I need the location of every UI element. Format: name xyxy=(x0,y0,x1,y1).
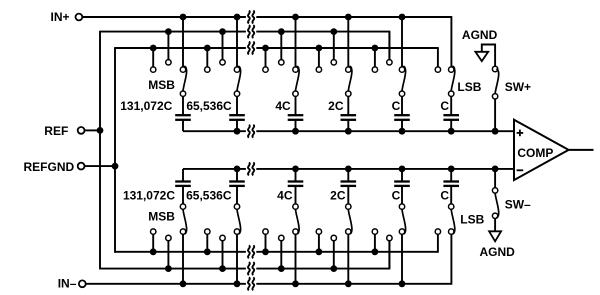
switch LSB IN+ throw (top) xyxy=(449,67,454,72)
node REFGND bottom rail junction MSB xyxy=(150,248,157,255)
switch 4C REF throw (top) xyxy=(279,60,284,65)
wire REF stub to 2C switch (bottom) xyxy=(333,238,335,269)
node REFGND bottom rail junction 4C xyxy=(262,248,269,255)
switch C5 pole (bottom) xyxy=(399,204,404,209)
capacitor C4 2C (bottom) xyxy=(341,182,357,186)
switch LSB pole (top) xyxy=(449,91,454,96)
switch 2C REFGND throw (bottom) xyxy=(316,229,321,234)
node REFGND rail junction 4C xyxy=(262,45,269,52)
node + bus junction cap 2 xyxy=(234,128,241,135)
wire REFGND stub to 4C switch (bottom) xyxy=(265,232,267,252)
wire cap 6 to switch pole (bottom) xyxy=(450,186,452,207)
switch SW- pole xyxy=(492,188,497,193)
wire switch pole to cap 1 (top) xyxy=(182,96,184,115)
wire SW- contact to AGND xyxy=(494,219,496,232)
svg-text:REFGND: REFGND xyxy=(24,160,75,174)
wire top cap-bus to comparator + xyxy=(183,130,514,132)
wire IN- stub to 4C switch (bottom) xyxy=(295,232,297,284)
capacitor C2 65,536C (top) xyxy=(229,115,245,120)
svg-text:REF: REF xyxy=(44,124,68,138)
node REF bottom rail junction MSB xyxy=(165,265,172,272)
node IN- rail junction 2C xyxy=(345,280,352,287)
node + bus junction cap 5 xyxy=(399,128,406,135)
wire REF stub to 65536C switch (bottom) xyxy=(222,238,224,269)
wire REFGND stub to C5 switch xyxy=(374,48,376,70)
wire REF stub to 4C switch (bottom) xyxy=(280,238,282,269)
switch C5 REF throw (top) xyxy=(387,60,392,65)
terminal IN+ xyxy=(76,14,83,21)
wire REF rail drop to C switch contact xyxy=(388,31,390,63)
node REF bottom rail junction 4C xyxy=(278,265,285,272)
node REF bottom rail junction 65536C xyxy=(219,265,226,272)
wire IN+ stub to 2C switch xyxy=(347,17,349,70)
wire REF stub to 2C switch xyxy=(333,32,335,63)
switch 4C pole (top) xyxy=(293,91,298,96)
node REF rail junction 4C xyxy=(278,28,285,35)
switch 2C IN+ throw (top) xyxy=(346,67,351,72)
node REF rail junction 2C xyxy=(330,28,337,35)
switch 4C REFGND throw (bottom) xyxy=(263,229,268,234)
ground AGND symbol (top) xyxy=(475,52,488,61)
wire switch pole to cap 5 (top) xyxy=(401,96,403,115)
svg-text:65,536C: 65,536C xyxy=(186,188,232,202)
switch 65536C lever (bottom) xyxy=(237,209,241,233)
wire break symbol at y=168.9 xyxy=(246,163,256,176)
wire break symbol at y=283.8 xyxy=(246,277,256,290)
wire REF stub to 65536C switch xyxy=(222,32,224,63)
wire - bus to cap 1 (bottom) xyxy=(182,169,184,182)
switch MSB IN+ throw (top) xyxy=(180,67,185,72)
wire REF stub to C5 switch (bottom) xyxy=(388,238,390,269)
switch 65536C REFGND throw (bottom) xyxy=(205,229,210,234)
node - bus junction cap 3 xyxy=(292,166,299,173)
node - bus junction cap 4 xyxy=(345,166,352,173)
wire - bus to cap 5 (bottom) xyxy=(401,169,403,182)
svg-text:IN–: IN– xyxy=(58,277,77,291)
node + bus junction cap 3 xyxy=(292,128,299,135)
switch 2C REF throw (bottom) xyxy=(331,235,336,240)
wire break symbol at y=268.6 xyxy=(246,262,256,275)
wire REFGND rail (top) xyxy=(115,47,438,49)
switch LSB lever (top) xyxy=(451,67,455,91)
capacitor C6 LSB C (top) xyxy=(443,115,459,120)
svg-text:2C: 2C xyxy=(328,99,344,113)
wire REFGND vertical bus (left) xyxy=(114,47,116,253)
switch C5 IN- throw (bottom) xyxy=(399,229,404,234)
switch 2C REF throw (top) xyxy=(331,60,336,65)
node + bus junction SW+ xyxy=(492,128,499,135)
wire REFGND stub to 2C switch xyxy=(318,48,320,70)
node + bus junction cap 4 xyxy=(345,128,352,135)
switch 4C REF throw (bottom) xyxy=(279,235,284,240)
node REFGND rail junction 65536C xyxy=(204,45,211,52)
switch LSB REFGND throw (top) xyxy=(435,67,440,72)
switch MSB lever (top) xyxy=(183,67,187,91)
svg-text:4C: 4C xyxy=(277,188,293,202)
wire - bus to cap 2 (bottom) xyxy=(236,169,238,182)
switch 2C pole (top) xyxy=(346,91,351,96)
svg-text:COMP: COMP xyxy=(517,146,553,160)
wire REFGND bottom rail rise to LSB contact xyxy=(437,232,439,253)
switch 4C pole (bottom) xyxy=(293,204,298,209)
node IN- rail junction C5 xyxy=(399,280,406,287)
switch 4C REFGND throw (top) xyxy=(263,67,268,72)
switch MSB lever (bottom) xyxy=(183,209,187,233)
wire switch pole to cap 3 (top) xyxy=(295,96,297,115)
switch LSB lever (bottom) xyxy=(451,209,455,233)
wire SW+ contact to AGND xyxy=(482,45,495,70)
wire cap 1 to + bus (top) xyxy=(182,120,184,131)
wire IN- stub to C5 switch (bottom) xyxy=(401,232,403,284)
wire REFGND stub to 4C switch xyxy=(265,48,267,70)
switch C5 lever (top) xyxy=(402,67,406,91)
switch 4C IN+ throw (top) xyxy=(293,67,298,72)
switch MSB REFGND throw (top) xyxy=(151,67,156,72)
switch C5 REFGND throw (top) xyxy=(372,67,377,72)
node REF bottom rail junction 2C xyxy=(330,265,337,272)
switch 2C pole (bottom) xyxy=(346,204,351,209)
node REFGND rail junction C5 xyxy=(372,45,379,52)
wire bottom cap-bus to comparator - xyxy=(183,168,514,170)
node REF rail junction 65536C xyxy=(219,28,226,35)
svg-text:2C: 2C xyxy=(330,188,346,202)
wire IN+ stub to 65536C switch xyxy=(236,17,238,70)
wire IN- rail (bottom) xyxy=(86,283,452,285)
svg-text:C: C xyxy=(392,99,401,113)
wire comparator output xyxy=(569,149,594,151)
wire cap 4 to + bus (top) xyxy=(347,120,349,131)
wire IN+ rail drop to LSB contact xyxy=(450,16,452,70)
wire REF terminal lead xyxy=(84,129,100,131)
wire REFGND stub to MSB switch (bottom) xyxy=(152,232,154,252)
wire IN- rail rise to LSB contact xyxy=(450,232,452,285)
capacitor C3 4C (bottom) xyxy=(288,182,304,186)
svg-text:MSB: MSB xyxy=(148,78,175,92)
switch MSB REF throw (top) xyxy=(166,60,171,65)
switch 65536C lever (top) xyxy=(237,67,241,91)
svg-text:AGND: AGND xyxy=(480,245,516,259)
switch MSB IN- throw (bottom) xyxy=(180,229,185,234)
svg-text:C: C xyxy=(392,188,401,202)
switch MSB pole (bottom) xyxy=(180,204,185,209)
svg-text:SW–: SW– xyxy=(505,198,531,212)
wire REF rail (top) xyxy=(100,31,389,33)
svg-text:65,536C: 65,536C xyxy=(186,99,232,113)
wire REFGND stub to C5 switch (bottom) xyxy=(374,232,376,252)
wire REF stub to MSB switch xyxy=(167,32,169,63)
wire cap 5 to + bus (top) xyxy=(401,120,403,131)
wire break symbol at y=251.8 xyxy=(246,245,256,258)
wire break symbol at y=48 xyxy=(246,42,256,55)
switch C5 pole (top) xyxy=(399,91,404,96)
wire cap 4 to switch pole (bottom) xyxy=(347,186,349,207)
terminal REFGND xyxy=(78,163,85,170)
capacitor C4 2C (top) xyxy=(341,115,357,120)
svg-text:SW+: SW+ xyxy=(505,80,531,94)
node REFGND bottom rail junction 2C xyxy=(316,248,323,255)
wire REF vertical bus (left) xyxy=(99,31,101,270)
svg-text:131,072C: 131,072C xyxy=(120,99,172,113)
capacitor C1 MSB 131,072C (bottom) xyxy=(175,182,191,186)
svg-text:AGND: AGND xyxy=(462,28,498,42)
switch 2C IN- throw (bottom) xyxy=(346,229,351,234)
svg-text:LSB: LSB xyxy=(460,212,484,226)
wire REFGND terminal lead xyxy=(84,165,115,167)
switch SW+ AGND throw xyxy=(492,66,497,71)
wire - bus to cap 4 (bottom) xyxy=(347,169,349,182)
switch LSB IN- throw (bottom) xyxy=(449,229,454,234)
svg-text:IN+: IN+ xyxy=(50,10,69,24)
wire REFGND rail (bottom) xyxy=(115,251,438,253)
node IN+ rail junction 2C xyxy=(345,14,352,21)
node REFGND bottom rail junction C5 xyxy=(372,248,379,255)
wire cap 3 to switch pole (bottom) xyxy=(295,186,297,207)
node + bus junction cap 6 xyxy=(448,128,455,135)
wire switch pole to cap 2 (top) xyxy=(236,96,238,115)
wire cap 3 to + bus (top) xyxy=(295,120,297,131)
wire break symbol at y=17 xyxy=(246,11,256,24)
node IN- rail junction 4C xyxy=(292,280,299,287)
ground AGND symbol (bottom) xyxy=(489,231,501,241)
switch 4C IN- throw (bottom) xyxy=(293,229,298,234)
wire IN- stub to 65536C switch (bottom) xyxy=(236,232,238,284)
node IN- rail junction 65536C xyxy=(234,280,241,287)
wire REF bottom rail rise to C switch contact xyxy=(388,238,390,270)
wire REF stub to MSB switch (bottom) xyxy=(167,238,169,269)
wire REF stub to C5 switch xyxy=(388,32,390,63)
svg-text:C: C xyxy=(440,99,449,113)
capacitor C5 C (bottom) xyxy=(394,182,410,186)
switch 65536C pole (bottom) xyxy=(234,204,239,209)
node - bus junction cap 2 xyxy=(234,166,241,173)
terminal IN- xyxy=(79,280,86,287)
switch 2C lever (bottom) xyxy=(348,209,352,233)
svg-text:4C: 4C xyxy=(275,99,291,113)
wire IN+ stub to C5 switch xyxy=(401,17,403,70)
switch 65536C IN+ throw (top) xyxy=(234,67,239,72)
node - bus junction cap 5 xyxy=(399,166,406,173)
node REF rail junction MSB xyxy=(165,28,172,35)
wire - bus to cap 6 (bottom) xyxy=(450,169,452,182)
node IN+ rail junction MSB xyxy=(180,14,187,21)
node IN+ rail junction 65536C xyxy=(234,14,241,21)
switch SW+ lever xyxy=(495,69,499,93)
wire IN+ stub to 4C switch xyxy=(295,17,297,70)
wire REFGND stub to 65536C switch xyxy=(206,48,208,70)
svg-text:LSB: LSB xyxy=(457,80,481,94)
capacitor C2 65,536C (bottom) xyxy=(229,182,245,186)
switch MSB REFGND throw (bottom) xyxy=(151,229,156,234)
comparator - input marker xyxy=(517,169,524,171)
wire REFGND rail drop to LSB contact xyxy=(437,47,439,70)
switch 65536C pole (top) xyxy=(234,91,239,96)
switch 2C REFGND throw (top) xyxy=(316,67,321,72)
node REFGND junction on vertical bus xyxy=(112,163,119,170)
switch 4C lever (top) xyxy=(296,67,300,91)
switch 65536C REF throw (bottom) xyxy=(220,235,225,240)
node REF junction on vertical bus xyxy=(97,127,104,134)
wire IN- stub to MSB switch (bottom) xyxy=(182,232,184,284)
switch MSB pole (top) xyxy=(180,91,185,96)
node REFGND rail junction MSB xyxy=(150,45,157,52)
switch C5 REF throw (bottom) xyxy=(387,235,392,240)
op-amp U1 comparator COMP xyxy=(514,120,569,180)
comparator + input marker xyxy=(517,130,524,137)
switch SW+ pole xyxy=(492,94,497,99)
wire cap 2 to + bus (top) xyxy=(236,120,238,131)
wire SW+ pole to + bus xyxy=(494,96,496,131)
switch 65536C REFGND throw (top) xyxy=(205,67,210,72)
wire cap 1 to switch pole (bottom) xyxy=(182,186,184,207)
switch MSB REF throw (bottom) xyxy=(166,235,171,240)
switch 65536C IN- throw (bottom) xyxy=(234,229,239,234)
wire break symbol at y=31.6 xyxy=(246,25,256,38)
wire cap 6 to + bus (top) xyxy=(450,120,452,131)
wire REF stub to 4C switch xyxy=(280,32,282,63)
switch C5 IN+ throw (top) xyxy=(399,67,404,72)
svg-text:C: C xyxy=(440,188,449,202)
node REFGND rail junction 2C xyxy=(316,45,323,52)
wire REFGND stub to 65536C switch (bottom) xyxy=(206,232,208,252)
switch LSB pole (bottom) xyxy=(449,204,454,209)
wire REF rail (bottom) xyxy=(100,268,389,270)
wire - bus to SW- pole xyxy=(494,169,496,191)
switch C5 lever (bottom) xyxy=(402,209,406,233)
wire IN+ stub to MSB switch xyxy=(182,17,184,70)
svg-text:131,072C: 131,072C xyxy=(123,188,175,202)
node REFGND bottom rail junction 65536C xyxy=(204,248,211,255)
wire cap 2 to switch pole (bottom) xyxy=(236,186,238,207)
node IN+ rail junction 4C xyxy=(292,14,299,21)
switch C5 REFGND throw (bottom) xyxy=(372,229,377,234)
terminal REF xyxy=(78,127,85,134)
svg-text:MSB: MSB xyxy=(148,210,175,224)
wire break symbol at y=131.2 xyxy=(246,125,256,138)
wire REFGND stub to MSB switch xyxy=(152,48,154,70)
capacitor C1 MSB 131,072C (top) xyxy=(175,115,191,120)
capacitor C3 4C (top) xyxy=(288,115,304,120)
wire cap 5 to switch pole (bottom) xyxy=(401,186,403,207)
switch SW- lever xyxy=(495,193,499,217)
node - bus junction cap 6 xyxy=(448,166,455,173)
wire - bus to cap 3 (bottom) xyxy=(295,169,297,182)
switch 2C lever (top) xyxy=(348,67,352,91)
wire IN- stub to 2C switch (bottom) xyxy=(347,232,349,284)
wire switch pole to cap 4 (top) xyxy=(347,96,349,115)
wire IN+ rail (top) xyxy=(82,16,451,18)
capacitor C6 LSB C (bottom) xyxy=(443,182,459,186)
switch SW- AGND throw xyxy=(492,213,497,218)
switch 65536C REF throw (top) xyxy=(220,60,225,65)
node IN+ rail junction C5 xyxy=(399,14,406,21)
capacitor C5 C (top) xyxy=(394,115,410,120)
wire switch pole to cap 6 (top) xyxy=(450,96,452,115)
switch LSB REFGND throw (bottom) xyxy=(435,229,440,234)
node IN- rail junction MSB xyxy=(180,280,187,287)
switch 4C lever (bottom) xyxy=(296,209,300,233)
wire REFGND stub to 2C switch (bottom) xyxy=(318,232,320,252)
node - bus junction SW- xyxy=(492,166,499,173)
